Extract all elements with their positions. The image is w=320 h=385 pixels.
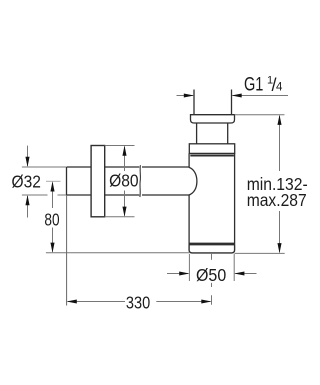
- svg-text:330: 330: [126, 292, 151, 312]
- 330 dimension: [67, 292, 212, 312]
- 330 extension line: [66, 195, 68, 306]
- svg-text:G1: G1: [244, 75, 263, 96]
- inlet elbow bulge into body: [189, 167, 197, 195]
- Ø80 dimension extension lines: [105, 145, 135, 147]
- body centerline: [211, 253, 213, 305]
- wall escutcheon disc Ø80: [91, 146, 105, 217]
- flange nut below pipe: [191, 115, 235, 123]
- svg-text:4: 4: [276, 82, 283, 94]
- min.132-max.287 dimension: [247, 115, 308, 254]
- bottom cap of body: [189, 243, 235, 246]
- Ø50 dimension: [167, 265, 257, 285]
- svg-text:Ø32: Ø32: [12, 172, 41, 192]
- Ø32 dimension: [12, 146, 41, 218]
- min/max extension lines: [235, 114, 285, 116]
- Ø80 dimension: [109, 146, 139, 217]
- G1 1/4 dimension: [177, 75, 289, 98]
- trap body cup: [189, 154, 235, 246]
- svg-text:Ø80: Ø80: [109, 171, 139, 191]
- Ø50 dimension extension lines: [188, 254, 190, 281]
- top inlet pipe G1 1/4: [194, 90, 232, 115]
- neck: [197, 123, 228, 144]
- 80 bottom extension line: [46, 252, 189, 254]
- svg-text:80: 80: [44, 209, 59, 229]
- Ø32 dimension extension lines: [22, 166, 66, 168]
- pipe break squiggle: [139, 165, 142, 197]
- pipe centerline stub: [46, 180, 61, 182]
- svg-text:Ø50: Ø50: [196, 265, 226, 285]
- horizontal wall pipe Ø32: [67, 167, 190, 195]
- 80 dimension: [44, 181, 59, 253]
- svg-text:max.287: max.287: [247, 190, 307, 210]
- body top ring nut: [189, 144, 234, 154]
- groove line: [190, 155, 234, 157]
